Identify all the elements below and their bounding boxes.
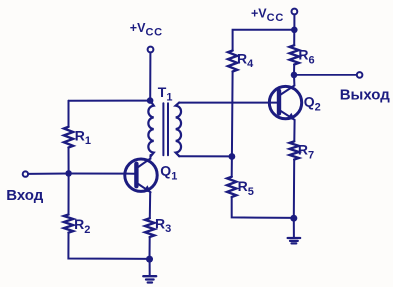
transistor Q2 (269, 86, 301, 121)
label Выход (340, 86, 391, 103)
node Vcc-right junction dot (291, 27, 298, 34)
label R5 (238, 178, 254, 198)
terminal input (open circle) (23, 171, 28, 176)
resistor R5 (227, 177, 236, 197)
wire R2 top lead (68, 174, 70, 215)
transformer T1 core (162, 103, 164, 155)
resistor R4 (228, 51, 237, 72)
wire R6 bottom lead (293, 65, 295, 75)
wire R5 top lead (231, 157, 233, 177)
wire R1 bottom lead (68, 148, 70, 174)
wire Vcc-left down to node (149, 53, 151, 100)
node R4/R5/secondary junction dot (229, 153, 236, 160)
label +Vcc right (251, 6, 284, 24)
wire top rail to R4 (233, 30, 295, 51)
label Q1 (160, 163, 177, 183)
svg-text:R4: R4 (237, 50, 254, 70)
resistor R6 (290, 45, 299, 64)
wire T1 secondary top to Q2 base (179, 102, 277, 104)
svg-text:+VCC: +VCC (251, 6, 284, 24)
wire base of Q1 (69, 173, 135, 175)
transformer T1 secondary winding (176, 103, 181, 157)
svg-text:Q1: Q1 (160, 163, 177, 183)
node input junction dot (65, 170, 72, 177)
wire Q2 emitter down to R7 (293, 120, 295, 142)
wire R1 top lead (68, 101, 70, 127)
wire Q1 collector up to T1 primary (149, 155, 151, 159)
ground left (143, 259, 156, 283)
wire Q1 emitter down to R3 (149, 192, 151, 218)
resistor R1 (64, 127, 73, 148)
node output junction dot (291, 72, 298, 79)
wire R7 bottom lead (293, 160, 295, 219)
wire R6 top lead (293, 30, 295, 46)
label T1 (158, 84, 173, 104)
node ground junction dot left (146, 256, 153, 263)
terminal Vcc left (open circle) (148, 47, 154, 53)
terminal Vcc right (open circle) (292, 9, 298, 15)
wire R2 bottom lead and bottom rail to ground node (68, 233, 149, 259)
wire output (294, 74, 357, 76)
svg-text:R2: R2 (74, 216, 90, 236)
label R3 (155, 215, 171, 235)
label R4 (237, 50, 254, 70)
terminal output (open circle) (357, 72, 363, 78)
svg-text:Q2: Q2 (304, 94, 321, 114)
svg-text:R1: R1 (75, 127, 91, 147)
resistor R7 (290, 141, 299, 159)
label Вход (6, 187, 44, 204)
svg-text:+VCC: +VCC (130, 21, 163, 39)
label Q2 (304, 94, 321, 114)
transistor Q1 (125, 159, 157, 193)
wire input to node (28, 173, 68, 175)
ground right (288, 218, 301, 243)
node junction dot (Vcc / R1 / T1 primary) (147, 97, 154, 104)
label R1 (75, 127, 91, 147)
label R6 (298, 47, 314, 67)
node right ground junction dot (290, 215, 297, 222)
wire Vcc-right down (293, 15, 295, 30)
label R7 (298, 142, 314, 162)
svg-text:T1: T1 (158, 84, 173, 104)
wire Q2 collector (293, 75, 295, 86)
svg-text:Вход: Вход (6, 187, 44, 204)
wire R3 bottom lead (149, 237, 151, 259)
label +Vcc left (130, 21, 163, 39)
wire R5 bottom rail to right ground node (232, 197, 294, 218)
transformer T1 primary winding (148, 101, 153, 157)
label R2 (74, 216, 90, 236)
wire top-left horizontal R1 to transformer node (69, 100, 151, 102)
svg-text:R5: R5 (238, 178, 254, 198)
svg-text:R3: R3 (155, 215, 171, 235)
wire R4 bottom to R5 node (crosses base wire, no dot) (231, 72, 234, 157)
resistor R3 (145, 218, 154, 237)
resistor R2 (64, 215, 73, 233)
wire T1 secondary bottom to R4/R5 node (179, 155, 232, 157)
svg-text:Выход: Выход (340, 86, 391, 103)
